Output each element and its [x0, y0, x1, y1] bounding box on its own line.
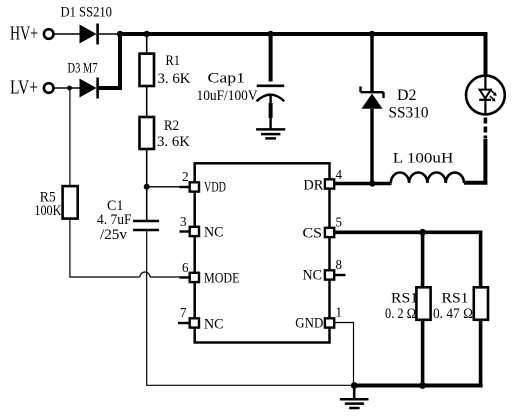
wire VDD node to pin 2	[147, 186, 190, 188]
svg-text:MODE: MODE	[204, 271, 240, 287]
wire riser LV to HV rail	[118, 34, 122, 90]
svg-text:3: 3	[180, 215, 187, 230]
pin 6 MODE	[180, 261, 240, 287]
LED load	[466, 76, 505, 115]
resistor R1 3.6K	[140, 53, 191, 87]
node rail at R1	[144, 31, 150, 37]
svg-text:NC: NC	[204, 317, 224, 333]
resistor RS1 0.2ohm	[385, 287, 431, 322]
diode D1 SS210	[61, 5, 113, 45]
svg-text:0. 2 Ω: 0. 2 Ω	[385, 306, 416, 322]
wire rail to D2 cathode	[370, 34, 373, 92]
wire top supply rail	[118, 32, 488, 36]
svg-text:LV+: LV+	[10, 77, 38, 99]
node HV rail at riser	[117, 31, 123, 37]
svg-text:D3 M7: D3 M7	[68, 61, 98, 77]
pin 1 GND	[295, 306, 342, 332]
ground at bottom rail	[340, 386, 369, 409]
wire LED to inductor	[464, 139, 486, 183]
svg-text:R1: R1	[166, 53, 181, 69]
svg-text:Cap1: Cap1	[208, 71, 246, 87]
pin 4 DR	[303, 168, 342, 194]
node VDD junction	[144, 184, 150, 190]
svg-text:/25v: /25v	[100, 227, 128, 243]
svg-text:4. 7uF: 4. 7uF	[97, 212, 132, 228]
wire rail to R1	[146, 34, 148, 55]
svg-text:RS1: RS1	[391, 291, 418, 307]
svg-text:D2: D2	[397, 87, 417, 104]
wire GND pin to bottom node	[334, 323, 353, 386]
svg-text:7: 7	[180, 306, 187, 321]
diode D2 SS310 schottky	[361, 87, 429, 122]
capacitor Cap1 10uF/100V	[197, 34, 285, 130]
wire DR to inductor	[334, 182, 391, 185]
node RS1a at bottom rail	[419, 382, 426, 389]
wire R1 to R2	[146, 86, 148, 118]
pin 8 NC	[303, 258, 346, 284]
wire D1 cathode to node	[98, 33, 119, 35]
wire rail corner down to LED	[484, 32, 488, 77]
svg-text:GND: GND	[295, 316, 323, 332]
wire hop to MODE pin 6	[150, 276, 190, 278]
svg-text:2: 2	[182, 170, 189, 185]
svg-text:DR: DR	[303, 178, 323, 194]
svg-text:HV+: HV+	[10, 23, 38, 45]
wire CS node to right corner	[423, 232, 481, 287]
node DR at D2	[369, 180, 375, 186]
terminal LV+	[10, 77, 54, 99]
svg-text:3. 6K: 3. 6K	[157, 134, 190, 150]
svg-text:6: 6	[182, 261, 189, 276]
svg-text:CS: CS	[303, 226, 323, 242]
wire LV node to R5	[69, 88, 71, 186]
inductor L 100uH	[391, 151, 464, 184]
terminal HV+	[10, 23, 54, 45]
svg-text:10uF/100V: 10uF/100V	[197, 88, 258, 104]
wire R2 to VDD node	[146, 149, 148, 187]
wire CS pin to sense node	[334, 231, 423, 235]
pin 5 CS	[303, 216, 343, 242]
svg-text:L 100uH: L 100uH	[393, 151, 454, 167]
IC body	[195, 163, 330, 342]
svg-text:8: 8	[336, 258, 343, 273]
ground at Cap1	[256, 129, 285, 138]
wire RS1b to bottom rail	[479, 320, 483, 388]
wire C1 to bottom rail	[147, 230, 354, 385]
svg-text:100K: 100K	[34, 203, 61, 219]
resistor R5 100K	[34, 186, 77, 219]
wire HV+ to D1 anode	[54, 33, 80, 35]
capacitor C1 4.7uF/25v	[97, 187, 159, 243]
svg-text:1: 1	[336, 306, 343, 321]
svg-text:NC: NC	[204, 225, 224, 241]
diode D3 M7	[68, 61, 98, 99]
node ground junction	[351, 382, 358, 389]
wire D2 anode to DR node	[370, 109, 373, 184]
node rail at D2	[369, 31, 375, 37]
svg-text:0. 47 Ω: 0. 47 Ω	[433, 306, 473, 322]
svg-text:5: 5	[336, 216, 343, 231]
wire CS node down to RS1a	[421, 232, 425, 287]
wire R5 to MODE corner	[70, 219, 140, 277]
wire LV+ to D3 anode	[54, 87, 80, 89]
wire LED dashed section	[484, 118, 488, 139]
pin 2 VDD	[180, 170, 227, 196]
svg-text:NC: NC	[303, 268, 323, 284]
svg-text:R2: R2	[164, 118, 179, 134]
svg-text:4: 4	[336, 168, 343, 183]
wire D3 cathode thick to riser	[98, 86, 122, 90]
svg-text:D1 SS210: D1 SS210	[61, 5, 113, 21]
node LV junction to R5	[67, 86, 72, 91]
svg-text:RS1: RS1	[442, 291, 469, 307]
resistor RS1 0.47ohm	[433, 287, 488, 322]
svg-text:VDD: VDD	[204, 180, 226, 196]
resistor R2 3.6K	[140, 117, 191, 150]
svg-text:3. 6K: 3. 6K	[158, 71, 191, 87]
pin 7 NC	[178, 306, 224, 333]
node rail at Cap1	[267, 31, 273, 37]
pin 3 NC	[180, 215, 224, 241]
svg-text:SS310: SS310	[389, 105, 429, 122]
wire bottom rail thick	[354, 384, 482, 388]
wire RS1a to bottom rail	[421, 320, 425, 387]
wire hop over C1 lead	[140, 272, 150, 277]
node CS at RS1a	[419, 229, 426, 236]
